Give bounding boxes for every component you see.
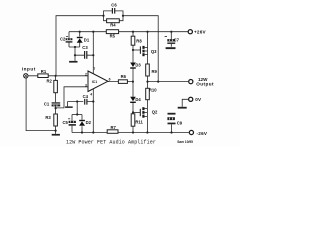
svg-text:R7: R7 bbox=[111, 125, 117, 130]
svg-text:D4: D4 bbox=[135, 97, 141, 102]
wire input shield to ground bbox=[26, 78, 55, 131]
terminal output bbox=[189, 80, 193, 84]
terminal 0V bbox=[189, 97, 193, 101]
svg-text:IC1: IC1 bbox=[92, 80, 97, 84]
capacitor C6 loop bbox=[104, 11, 124, 16]
ground at C7 bbox=[166, 47, 176, 49]
label R1 bbox=[41, 69, 47, 74]
svg-text:Q2: Q2 bbox=[152, 109, 158, 114]
svg-text:7: 7 bbox=[93, 67, 95, 71]
label R4 bbox=[110, 23, 116, 28]
wire feedback top run bbox=[56, 16, 158, 82]
svg-text:4: 4 bbox=[90, 92, 92, 96]
op-amp IC1 bbox=[88, 71, 108, 92]
svg-text:R2: R2 bbox=[47, 78, 53, 83]
label R5 bbox=[110, 33, 116, 38]
svg-text:Q3: Q3 bbox=[151, 49, 157, 54]
note Sam 10/95 bbox=[177, 140, 193, 144]
svg-text:R11: R11 bbox=[135, 119, 143, 124]
label C4 bbox=[83, 94, 89, 99]
svg-text:6: 6 bbox=[109, 78, 111, 82]
title 12W Power FET Audio Amplifier bbox=[66, 140, 156, 146]
wire C4 row bbox=[68, 102, 94, 107]
wire pin4 column bbox=[92, 89, 94, 133]
label R9 bbox=[152, 69, 158, 74]
resistor R8 bbox=[131, 36, 135, 45]
wire Q3 gate bbox=[133, 49, 140, 51]
svg-text:-26V: -26V bbox=[197, 131, 208, 136]
terminal input bbox=[24, 74, 28, 78]
resistor R1 bbox=[38, 74, 48, 78]
resistor R4 bbox=[107, 19, 120, 23]
wire C5 D2 top bbox=[72, 114, 82, 116]
label R7 bbox=[111, 125, 117, 130]
transistor Q3 bbox=[139, 46, 141, 53]
svg-text:Sam 10/95: Sam 10/95 bbox=[177, 140, 193, 144]
svg-text:2: 2 bbox=[85, 72, 87, 76]
label R2 bbox=[47, 78, 53, 83]
svg-text:12W Power FET Audio Amplifier: 12W Power FET Audio Amplifier bbox=[66, 140, 156, 146]
resistor R3 bbox=[54, 114, 58, 126]
label 0V bbox=[195, 97, 202, 102]
ground at C2 D1 bbox=[69, 61, 77, 63]
resistor R9 bbox=[146, 64, 150, 76]
node dots bbox=[55, 15, 173, 134]
wire Q3 source to R9 bbox=[147, 54, 149, 64]
wire D2 stubs bbox=[81, 115, 83, 133]
label R10 bbox=[149, 88, 157, 93]
ground at R3 bbox=[52, 134, 60, 136]
label C3 bbox=[82, 45, 88, 50]
resistor R11 bbox=[131, 114, 135, 126]
wire R9 R10 node bbox=[147, 76, 149, 88]
svg-text:C4: C4 bbox=[83, 94, 89, 99]
wire opamp output bbox=[108, 81, 133, 83]
wire C7 stubs bbox=[170, 32, 172, 47]
label D4 bbox=[135, 97, 141, 102]
label C2 bbox=[60, 37, 66, 42]
svg-text:D3: D3 bbox=[135, 63, 141, 68]
resistor R10 bbox=[146, 88, 150, 99]
svg-text:3: 3 bbox=[85, 83, 87, 87]
label pin 3 bbox=[85, 83, 87, 87]
wire R10 to Q2 drain bbox=[147, 100, 149, 109]
wire C2 stubs bbox=[68, 32, 70, 47]
wire bottom rail bbox=[72, 132, 189, 134]
capacitor C4 bbox=[85, 99, 87, 105]
label +26V bbox=[194, 29, 207, 34]
label C1 bbox=[44, 101, 50, 106]
svg-text:C6: C6 bbox=[111, 3, 117, 8]
label Input bbox=[22, 66, 36, 71]
label D3 bbox=[135, 63, 141, 68]
capacitor C3 bbox=[85, 51, 87, 59]
wire mid column R8 D3 D4 R11 bbox=[132, 32, 134, 133]
svg-text:0V: 0V bbox=[195, 97, 202, 102]
wire Q3 drain up bbox=[147, 32, 149, 48]
label C9 bbox=[177, 121, 183, 126]
label Q3 bbox=[151, 49, 157, 54]
diode D1 bbox=[77, 37, 83, 43]
capacitor C2 bbox=[66, 36, 73, 43]
capacitor C9 bbox=[167, 113, 175, 124]
label pin 6 bbox=[109, 78, 111, 82]
resistor R4 loop bbox=[104, 16, 124, 21]
diode D3 bbox=[130, 63, 136, 69]
svg-text:R4: R4 bbox=[110, 23, 116, 28]
svg-text:R8: R8 bbox=[136, 38, 142, 43]
wire 0V lead bbox=[182, 99, 188, 106]
wire output row bbox=[148, 81, 189, 83]
svg-text:D2: D2 bbox=[86, 120, 92, 125]
svg-text:C5: C5 bbox=[63, 120, 69, 125]
label R11 bbox=[135, 119, 143, 124]
label pin 7 bbox=[93, 67, 95, 71]
svg-text:+26V: +26V bbox=[194, 29, 207, 34]
label C7 bbox=[174, 37, 180, 42]
label C6 bbox=[111, 3, 117, 8]
label C5 bbox=[63, 120, 69, 125]
wire D1 stubs bbox=[79, 32, 81, 47]
wire Q2 source down bbox=[146, 117, 148, 133]
wire C5 D2 column bbox=[76, 102, 78, 115]
svg-text:R6: R6 bbox=[121, 74, 127, 79]
wire +26V rail bbox=[69, 31, 188, 33]
resistor R7 bbox=[107, 130, 118, 134]
label D2 bbox=[86, 120, 92, 125]
svg-text:Output: Output bbox=[196, 82, 214, 87]
label 12W Output bbox=[196, 77, 214, 87]
capacitor C1 bbox=[52, 102, 61, 106]
svg-text:R5: R5 bbox=[110, 33, 116, 38]
wire pin3 run bbox=[56, 87, 90, 108]
wire C2 D1 bottom bbox=[69, 47, 80, 61]
terminal +26V bbox=[188, 30, 192, 34]
wire C5 stubs bbox=[71, 115, 73, 133]
ground at 0V bbox=[178, 107, 187, 109]
svg-text:C3: C3 bbox=[82, 45, 88, 50]
terminal -26V bbox=[189, 130, 193, 134]
wire pin7 column bbox=[92, 32, 94, 74]
svg-text:R3: R3 bbox=[45, 115, 51, 120]
svg-text:D1: D1 bbox=[84, 37, 90, 42]
wire C9 stub bbox=[171, 124, 173, 132]
svg-text:C2: C2 bbox=[60, 37, 66, 42]
svg-text:C9: C9 bbox=[177, 121, 183, 126]
svg-text:Input: Input bbox=[22, 66, 36, 71]
wire C3 row bbox=[75, 54, 93, 56]
capacitor C7 bbox=[165, 36, 176, 44]
wire input to pin2 bbox=[28, 75, 90, 77]
svg-text:R1: R1 bbox=[41, 69, 47, 74]
ground at C4 bbox=[65, 106, 73, 108]
label -26V bbox=[197, 131, 208, 136]
resistor R2 bbox=[54, 80, 58, 92]
label IC1 bbox=[92, 80, 97, 84]
wire Q2 gate bbox=[133, 111, 140, 113]
label pin 2 bbox=[85, 72, 87, 76]
svg-text:R10: R10 bbox=[149, 88, 157, 93]
label pin 4 bbox=[90, 92, 92, 96]
label D1 bbox=[84, 37, 90, 42]
capacitor C5 bbox=[68, 118, 76, 125]
resistor R5 bbox=[106, 30, 118, 34]
diode D4 bbox=[130, 97, 136, 103]
svg-text:R9: R9 bbox=[152, 69, 158, 74]
svg-text:C1: C1 bbox=[44, 101, 50, 106]
capacitor C6 bbox=[112, 8, 114, 14]
transistor Q2 bbox=[139, 109, 141, 116]
wire R2 column bbox=[55, 76, 57, 134]
label Q2 bbox=[152, 109, 158, 114]
svg-text:C7: C7 bbox=[174, 37, 180, 42]
resistor R6 bbox=[118, 80, 127, 84]
label R3 bbox=[45, 115, 51, 120]
diode D2 bbox=[79, 120, 85, 126]
label R6 bbox=[121, 74, 127, 79]
label R8 bbox=[136, 38, 142, 43]
